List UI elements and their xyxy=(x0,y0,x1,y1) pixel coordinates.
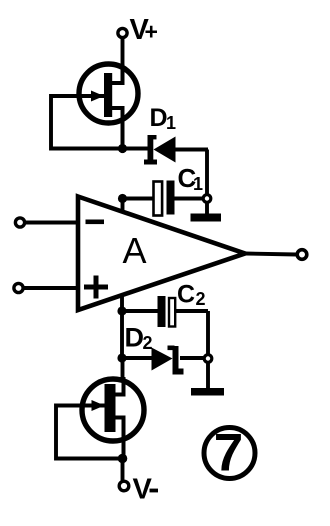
svg-text:D: D xyxy=(125,323,145,353)
svg-text:2: 2 xyxy=(143,333,153,353)
svg-text:+: + xyxy=(145,19,158,45)
svg-text:2: 2 xyxy=(196,289,206,309)
svg-text:D: D xyxy=(150,104,168,132)
svg-text:V: V xyxy=(133,474,153,506)
svg-text:7: 7 xyxy=(214,424,243,483)
svg-text:A: A xyxy=(123,230,147,271)
svg-text:1: 1 xyxy=(193,174,203,194)
svg-text:C: C xyxy=(177,281,195,309)
svg-text:1: 1 xyxy=(166,113,176,133)
